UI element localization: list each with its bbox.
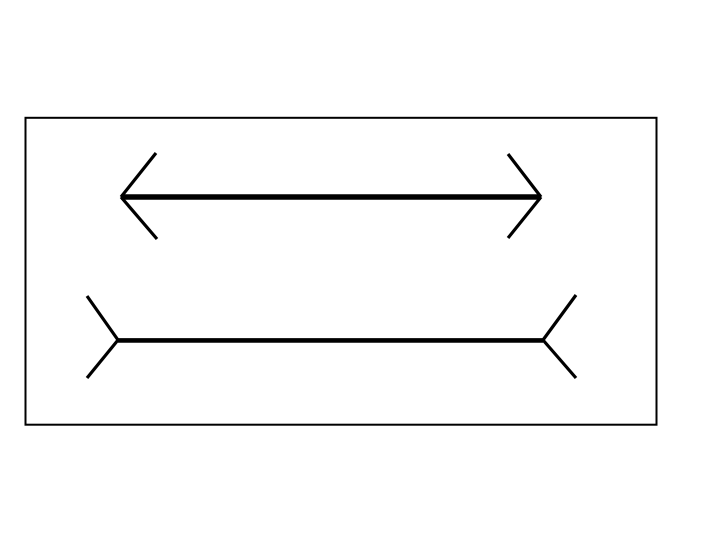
bottom line left upper fin xyxy=(87,296,118,340)
bottom line shaft xyxy=(118,338,543,343)
top arrow shaft xyxy=(121,194,541,199)
top arrow left upper fin xyxy=(121,153,156,197)
bottom line left lower fin xyxy=(87,340,118,378)
bottom line right upper fin xyxy=(543,295,576,340)
top arrow left lower fin xyxy=(121,197,157,239)
bottom line right lower fin xyxy=(543,340,576,378)
top arrow right upper fin xyxy=(508,154,541,197)
top arrow right lower fin xyxy=(508,197,541,238)
frame rectangle xyxy=(26,118,657,425)
